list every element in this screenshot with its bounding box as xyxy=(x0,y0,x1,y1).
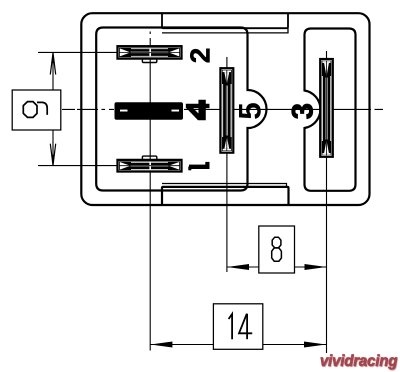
vertical centerline pin 3 xyxy=(326,51,328,158)
pin 3 (vertical slot) xyxy=(320,59,333,157)
arrow left xyxy=(227,264,249,270)
dim 14 label box xyxy=(213,304,262,350)
right enclosure (pin 3) with keyway bump xyxy=(305,29,356,191)
digit 8 xyxy=(272,237,282,261)
digit 9 (rotated) xyxy=(23,102,47,118)
extension line dim 9 top xyxy=(38,51,117,53)
svg-text:3: 3 xyxy=(286,103,319,119)
arrow right xyxy=(305,264,327,270)
pin 2 tab xyxy=(142,58,156,62)
pin label 1 (drawn) xyxy=(188,162,209,170)
svg-text:5: 5 xyxy=(232,102,268,120)
dim 9 vertical dimension line xyxy=(52,53,54,90)
pin 1 tab xyxy=(142,156,156,160)
vertical centerline pin 5 xyxy=(226,57,228,155)
svg-text:2: 2 xyxy=(184,48,215,64)
pin 4 (solid blade) xyxy=(115,102,184,120)
watermark vividracing xyxy=(320,353,397,371)
pin 5 (vertical slot) xyxy=(220,68,233,153)
extension line dim 14 left xyxy=(149,144,151,351)
outer body outline xyxy=(81,13,369,205)
extension line dims right xyxy=(326,158,328,353)
top tab xyxy=(162,13,288,28)
bottom tab upper line xyxy=(162,184,287,187)
inner-left enclosure with pin5 keyway bump xyxy=(96,28,266,191)
svg-text:4: 4 xyxy=(186,94,209,125)
arrow up xyxy=(51,53,54,63)
vertical centerline left pins (node pins 1/2/4 axis) xyxy=(149,32,151,145)
bottom tab xyxy=(162,187,289,205)
dim 14 dimension line xyxy=(150,344,213,346)
digits 14 xyxy=(229,314,253,340)
dim 8 dimension line xyxy=(227,266,259,268)
horizontal main centerline xyxy=(62,108,383,110)
dim 8 label box xyxy=(259,226,295,273)
dim 9 label box xyxy=(12,90,61,130)
extension line dim 9 bottom xyxy=(38,165,117,167)
extension line dim 8 left xyxy=(226,155,228,272)
pin 2 (slot) xyxy=(118,46,182,58)
arrow right xyxy=(304,342,326,348)
arrow left xyxy=(150,342,172,348)
pin 1 (slot) xyxy=(118,160,182,172)
top tab lower line xyxy=(162,29,288,33)
arrow down xyxy=(51,155,54,166)
